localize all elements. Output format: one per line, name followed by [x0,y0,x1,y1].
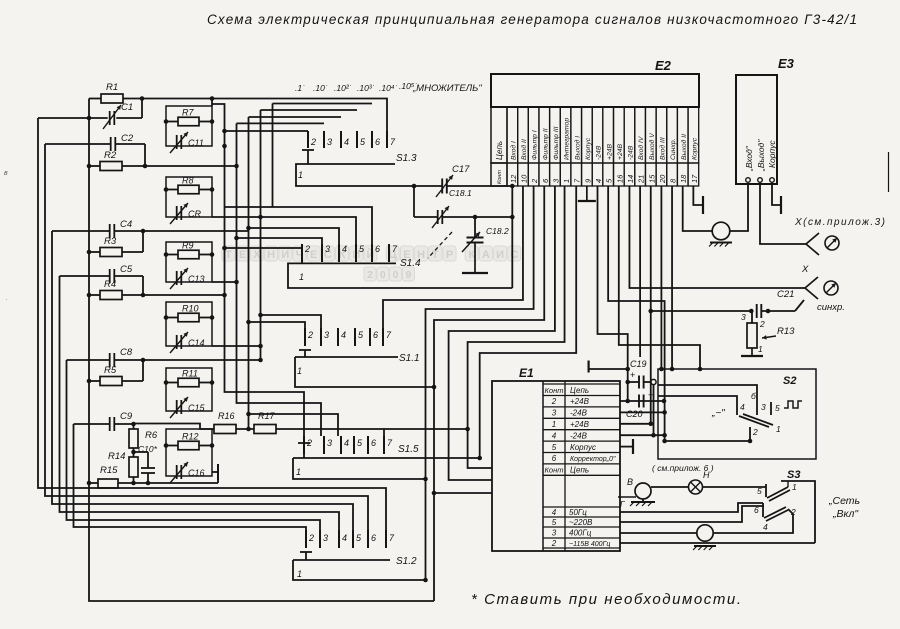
shield ring on E3 input wire [712,222,730,240]
wire E2 pin5 net [608,186,664,441]
switch S1.1 common [295,356,398,358]
svg-text:Корпус: Корпус [767,140,777,168]
svg-text:S1.1: S1.1 [399,353,420,364]
svg-text:1: 1 [299,272,304,282]
wire C1 leads [38,117,108,119]
resistor R5 [100,377,122,386]
wire feeder rail 2 [45,144,368,530]
wire feeder rail 4 [60,276,340,530]
capacitor C13 (trimmer) [176,271,178,285]
svg-text:4: 4 [344,438,349,448]
wire lamp to S3 [702,486,766,488]
svg-text:0: 0 [393,269,399,281]
connector E2 column Корпус (pin 9) [582,107,593,163]
svg-text:4: 4 [342,244,347,254]
svg-text:R8: R8 [182,176,194,186]
switch S3 pole upper [767,487,788,498]
wire C2 leads [45,143,111,145]
connector E2 column +24В (pin 16) [614,107,625,163]
wire multiplier link 4 [249,116,342,118]
svg-text:6: 6 [552,454,557,463]
svg-text:18: 18 [679,174,688,183]
resistor R11 [178,378,199,387]
wire E2 pin16 net to S2 [619,186,700,369]
svg-text:+24В: +24В [570,420,590,429]
wire main left rail [89,99,434,602]
svg-text:Конт: Конт [545,466,564,475]
svg-text:Корпус: Корпус [691,137,698,160]
svg-text:3: 3 [552,529,557,538]
svg-text:C21: C21 [777,289,794,300]
wire E1 +24V row3 stub [620,423,651,425]
wire S1.1 pole out [295,357,434,387]
svg-text:3: 3 [327,137,332,147]
svg-text:5: 5 [552,443,557,452]
svg-text:C13: C13 [188,274,205,284]
wire C17 leads [414,185,442,187]
capacitor C1 [109,111,111,125]
svg-text:Синхр.: Синхр. [670,138,677,160]
svg-text:R14: R14 [108,451,125,462]
resistor R9 [178,250,199,259]
wire C8 leads / row [67,359,110,361]
svg-text:5: 5 [757,486,762,496]
group box R10/C14 [166,302,212,346]
svg-text:4: 4 [740,402,745,412]
svg-text:И: И [281,249,289,261]
svg-text:Н: Н [267,249,275,261]
svg-text:+24В: +24В [606,143,613,160]
svg-text:C16: C16 [188,468,205,478]
svg-text:R4: R4 [104,279,116,290]
border mark [888,152,890,192]
svg-text:20: 20 [658,174,667,184]
svg-text:C15: C15 [188,403,206,413]
svg-text:1: 1 [562,179,571,183]
connector E2 column Вход IV (pin 21) [635,107,646,163]
svg-text:21: 21 [637,175,646,184]
capacitor C18.1 (trimmer) [437,210,439,224]
svg-text:3: 3 [552,409,557,418]
svg-text:Вход II: Вход II [520,139,528,160]
wire E2 pin7 net W5 [480,186,577,458]
shield ring on 400Hz wire [697,525,713,541]
svg-text:15: 15 [647,174,656,183]
svg-text:+24В: +24В [617,143,624,160]
capacitor C9 [109,417,111,431]
switch S2 square wave label [784,401,802,408]
wire C19 row [628,381,639,383]
wire E2 pin3 net W3 [449,186,555,480]
svg-text:Фильтр I: Фильтр I [532,130,539,160]
svg-text:E3: E3 [778,56,795,71]
svg-text:2: 2 [752,427,758,437]
wire pin15 to C21 [651,310,752,312]
svg-text:„Вход": „Вход" [744,145,754,172]
svg-text:400Гц: 400Гц [569,529,592,538]
svg-text:12: 12 [509,174,518,183]
wire R3 leads [89,251,100,253]
wire E2 pin15 net [650,186,652,424]
svg-text:Вход I: Вход I [509,141,517,160]
svg-text:5: 5 [552,518,557,527]
svg-text:Конт: Конт [497,170,503,184]
connector E2 column -24В (pin 4) [592,107,603,163]
svg-text:Р: Р [446,249,453,261]
wire S1.5 pole out [293,458,426,479]
wire C10 leads [134,451,149,453]
wire E1 -24V row4 stub [620,434,665,436]
wire E2 pin14 net (sync) [629,186,805,288]
resistor R1 [101,94,123,103]
capacitor C11 (trimmer) [176,135,178,149]
connector E2 column Фильтр I (pin 2) [528,107,539,163]
svg-text:R6: R6 [145,430,158,441]
svg-text:1: 1 [297,366,302,376]
svg-text:Е: Е [310,249,317,261]
wire 400Hz row [620,532,697,534]
svg-text:4: 4 [594,179,603,183]
wire R11 leads [166,382,178,384]
svg-text:И: И [496,249,504,261]
svg-text:-24В: -24В [628,145,635,160]
svg-text:.1˙: .1˙ [295,83,305,93]
wire R14 bottom lead [133,477,135,483]
wire jog to E1 left edge [434,492,492,494]
wire S2 internal 3 [658,385,757,402]
svg-text:C11: C11 [188,138,204,148]
svg-text:R17: R17 [258,411,276,421]
wire bus column c5 [272,104,274,208]
svg-text:.: . [6,295,8,302]
resistor R2 [100,162,122,171]
svg-text:6: 6 [373,330,378,340]
ground E2 pin9 [586,186,588,201]
connector E2 column Выход II (pin 18) [677,107,688,163]
svg-text:4: 4 [344,137,349,147]
resistor R13 [747,323,757,348]
switch S3 pole lower [764,507,786,518]
svg-text:R5: R5 [104,365,117,376]
svg-text:1: 1 [758,344,763,354]
svg-text:16: 16 [615,174,624,183]
connector E2 column -24В (pin 14) [624,107,635,163]
ground under R13 [751,348,753,356]
svg-text:„~": „~" [711,408,725,419]
connector E2 column Фильтр II (pin 6) [539,107,550,163]
svg-text:R10: R10 [182,304,199,314]
watermark [222,246,521,281]
capacitor C16 (trimmer) [176,465,178,479]
connector E2 column Выход I (pin 7) [571,107,582,163]
svg-text:C4: C4 [120,219,132,230]
svg-text:X: X [801,264,809,275]
wire multiplier link 6 [273,103,373,105]
switch S1.3 pole [307,150,309,164]
wire tie k6 left [225,206,273,208]
wire bus column c3 branch to S1.1 contact 2 [249,322,306,328]
wire S2 pole return [665,427,750,441]
svg-text:E2: E2 [655,58,672,73]
svg-text:3: 3 [741,312,746,322]
wire bus column c4 branch to S1.1 contact 3 [261,315,322,328]
svg-text:1: 1 [298,170,303,180]
wire feeder rail 6 [74,424,307,530]
switch S1.2 contacts [305,530,307,548]
svg-text:+: + [630,370,635,380]
resistor R3 [100,248,122,257]
resistor R17 [254,425,276,434]
svg-text:6: 6 [375,137,380,147]
svg-text:R3: R3 [104,236,117,247]
svg-text:4: 4 [552,431,557,440]
wire R13 leads [751,311,753,323]
wire R9 leads [166,254,178,256]
svg-text:3: 3 [323,533,328,543]
svg-text:~115В 400Гц: ~115В 400Гц [569,541,610,548]
resistor R14 [129,457,138,477]
wire bus column c2 [237,123,322,436]
wire R4 leads / row [89,294,100,296]
wire 115V row [620,542,815,544]
wire C5 leads [60,275,110,277]
terminal circle [651,379,656,384]
svg-text:C17: C17 [452,164,470,175]
wire R1 leads [89,98,101,100]
capacitor C10 [141,467,155,469]
svg-text:+24В: +24В [570,397,590,406]
capacitor C16 terminal bar [217,464,219,480]
wire R15 leads [89,482,98,484]
svg-text:5: 5 [775,403,780,413]
svg-text:C8: C8 [120,347,133,358]
svg-text:.10˙: .10˙ [313,83,328,93]
wire E2 pin18 net to E3 input [683,186,712,231]
svg-text:S2: S2 [783,375,796,387]
svg-text:Т: Т [225,249,232,261]
capacitor C18.2 (trimmer) [467,237,484,239]
wire tie G2 bottom [212,216,261,218]
ground under C18.2 [474,243,476,274]
svg-text:1: 1 [552,420,556,429]
wire bus column c4 [260,110,262,360]
svg-text:9: 9 [405,269,411,281]
svg-text:Фильтр II: Фильтр II [542,128,549,160]
svg-text:4: 4 [342,533,347,543]
svg-text:E1: E1 [519,366,534,380]
svg-text:R13: R13 [777,326,795,337]
svg-text:„МНОЖИТЕЛЬ": „МНОЖИТЕЛЬ" [412,83,482,94]
svg-text:2: 2 [308,533,314,543]
capacitor C20 on +24V row [638,395,640,408]
svg-text:C5: C5 [120,264,133,275]
wire group column top tie [211,99,213,107]
svg-text:3: 3 [761,402,766,412]
wire bus column c3 [248,117,250,429]
group box R12/C16 [166,429,212,476]
wire feeder rail 5 [67,360,321,530]
switch S2 contact 4 [736,402,738,415]
wire R2 leads / row [89,165,100,167]
svg-text:1: 1 [792,482,797,492]
wire R16-R17 row [236,428,254,430]
svg-text:17: 17 [690,174,699,183]
svg-text:4: 4 [552,508,557,517]
wire S1.2 pole out [293,560,426,580]
svg-text:R11: R11 [182,369,198,379]
svg-text:10: 10 [519,174,528,183]
svg-text:Вход III: Вход III [659,137,667,160]
svg-text:C20: C20 [626,409,643,419]
wire feeder rail 1 [38,118,386,530]
group box R8/СR [166,177,212,217]
switch S1.4 common [294,262,396,264]
switch S1.1 contacts [304,328,306,346]
svg-text:C9: C9 [120,411,133,422]
svg-text:C19: C19 [630,359,647,369]
svg-text:С18.1: С18.1 [449,188,472,198]
wire E2 pin21 net [639,186,641,357]
svg-text:0: 0 [380,269,386,281]
group box R7/C11 [166,106,212,146]
wire terminal stem [653,385,655,436]
wire E2 pin4 net [598,186,628,369]
wire R7 leads [166,121,178,123]
svg-text:С18.2: С18.2 [486,226,509,236]
wire top bus from R1 [142,99,387,132]
svg-text:R15: R15 [100,465,118,476]
svg-text:Выход II: Выход II [680,134,688,160]
svg-text:синхр.: синхр. [817,302,845,313]
wire multiplier link 2 [225,130,309,132]
connector E2 column Выход V (pin 15) [645,107,656,163]
ground E1 корпус row [620,446,633,448]
connector E2 column Вход III (pin 20) [656,107,667,163]
svg-text:.10²˙: .10²˙ [334,83,352,93]
switch S1.1 pole [304,350,306,357]
connector E2 header column [491,107,507,163]
svg-text:Й: Й [367,248,375,261]
switch S1.3 contacts [307,131,309,148]
svg-text:„Вкл": „Вкл" [832,508,859,520]
switch S1.4 pole [301,250,303,263]
svg-text:3: 3 [325,244,330,254]
svg-text:Корпус: Корпус [570,443,596,452]
capacitor C8 [109,353,111,367]
svg-text:Цепь: Цепь [570,386,589,395]
svg-text:СR: СR [188,209,201,219]
group box R11/C15 [166,368,212,411]
svg-text:2: 2 [759,319,765,329]
connector E2 column Корпус (pin 17) [688,107,699,163]
svg-text:Выход I: Выход I [573,136,581,160]
resistor R12 [178,441,199,450]
svg-text:2: 2 [551,539,557,548]
capacitor C14 (trimmer) [176,335,178,349]
svg-text:+: + [648,390,653,400]
svg-text:1: 1 [296,467,301,477]
switch S3 contact lower [762,503,764,517]
svg-text:Конт: Конт [545,386,564,395]
switch S1.2 pole [305,552,307,560]
wire E2 pin12 net [511,186,513,288]
wire C4 leads / row [52,230,110,232]
svg-text:А: А [482,249,490,261]
svg-text:R16: R16 [218,411,235,421]
svg-text:2: 2 [310,137,316,147]
svg-text:-24В: -24В [596,145,603,160]
svg-text:6: 6 [371,438,376,448]
lamp Н [651,486,689,488]
resistor R10 [178,313,199,322]
capacitor C21 [756,304,758,318]
wire E2 pin1 net W4 [468,186,565,468]
capacitor C15 (trimmer) [176,400,178,414]
svg-text:„Выход": „Выход" [756,139,766,172]
svg-text:50Гц: 50Гц [569,508,587,517]
wire 220V row [620,506,764,522]
switch S1.5 contacts [303,436,305,454]
svg-text:2: 2 [307,330,313,340]
switch S1.3 common [297,163,395,165]
wire C18 link [413,186,415,217]
wire C19 chassis tie [589,368,628,370]
wire S1.3 pole out [296,164,414,186]
wire feeder rail 3 [52,231,353,530]
svg-text:1: 1 [776,424,781,434]
svg-text:1: 1 [297,569,302,579]
connector E2 column Вход I (pin 12) [507,107,518,163]
resistor R7 [178,117,199,126]
wire 50Hz row [620,503,763,512]
wire C18.1 leads [414,216,438,218]
svg-text:S1.3: S1.3 [396,153,417,164]
connector E2 column Фильтр III (pin 3) [550,107,561,163]
wire S1.4 pole out [288,263,512,288]
svg-text:C2: C2 [121,133,134,144]
connector E2 column Интегратор (pin 1) [560,107,571,163]
svg-text:6: 6 [375,244,380,254]
svg-text:4: 4 [763,522,768,532]
switch S1.5 common [293,457,480,459]
ground E2 pin17 [693,186,703,205]
wire multiplier link 3 [237,122,325,124]
svg-text:R12: R12 [182,432,199,442]
svg-text:Корректор„0": Корректор„0" [570,456,616,463]
svg-text:Интегратор: Интегратор [564,118,571,160]
resistor R16 [214,425,236,434]
svg-text:6: 6 [371,533,376,543]
svg-text:R2: R2 [104,150,117,161]
resistor R4 [100,291,122,300]
resistor R6 [129,429,138,448]
group box R9/C13 [166,242,212,282]
wire E2 pin20 net [660,186,662,369]
wire E1 -24V row2 stub [620,411,665,413]
switch S1.2 common [293,559,390,561]
wire E2 pin2 net W1 [426,186,534,580]
wire bus column c3 branch to S1.5 contact 4 [249,414,339,436]
svg-text:S3: S3 [787,469,800,481]
wire tie G3 bottom [212,281,237,283]
svg-text:* Ставить при необходимости.: * Ставить при необходимости. [471,591,741,608]
capacitor C2 [110,137,112,151]
ground E3 корпус [772,182,781,205]
svg-text:Фильтр III: Фильтр III [553,126,560,160]
svg-text:2: 2 [530,178,539,184]
switch S2 contact 3 [756,402,758,415]
svg-text:В: В [627,477,633,487]
